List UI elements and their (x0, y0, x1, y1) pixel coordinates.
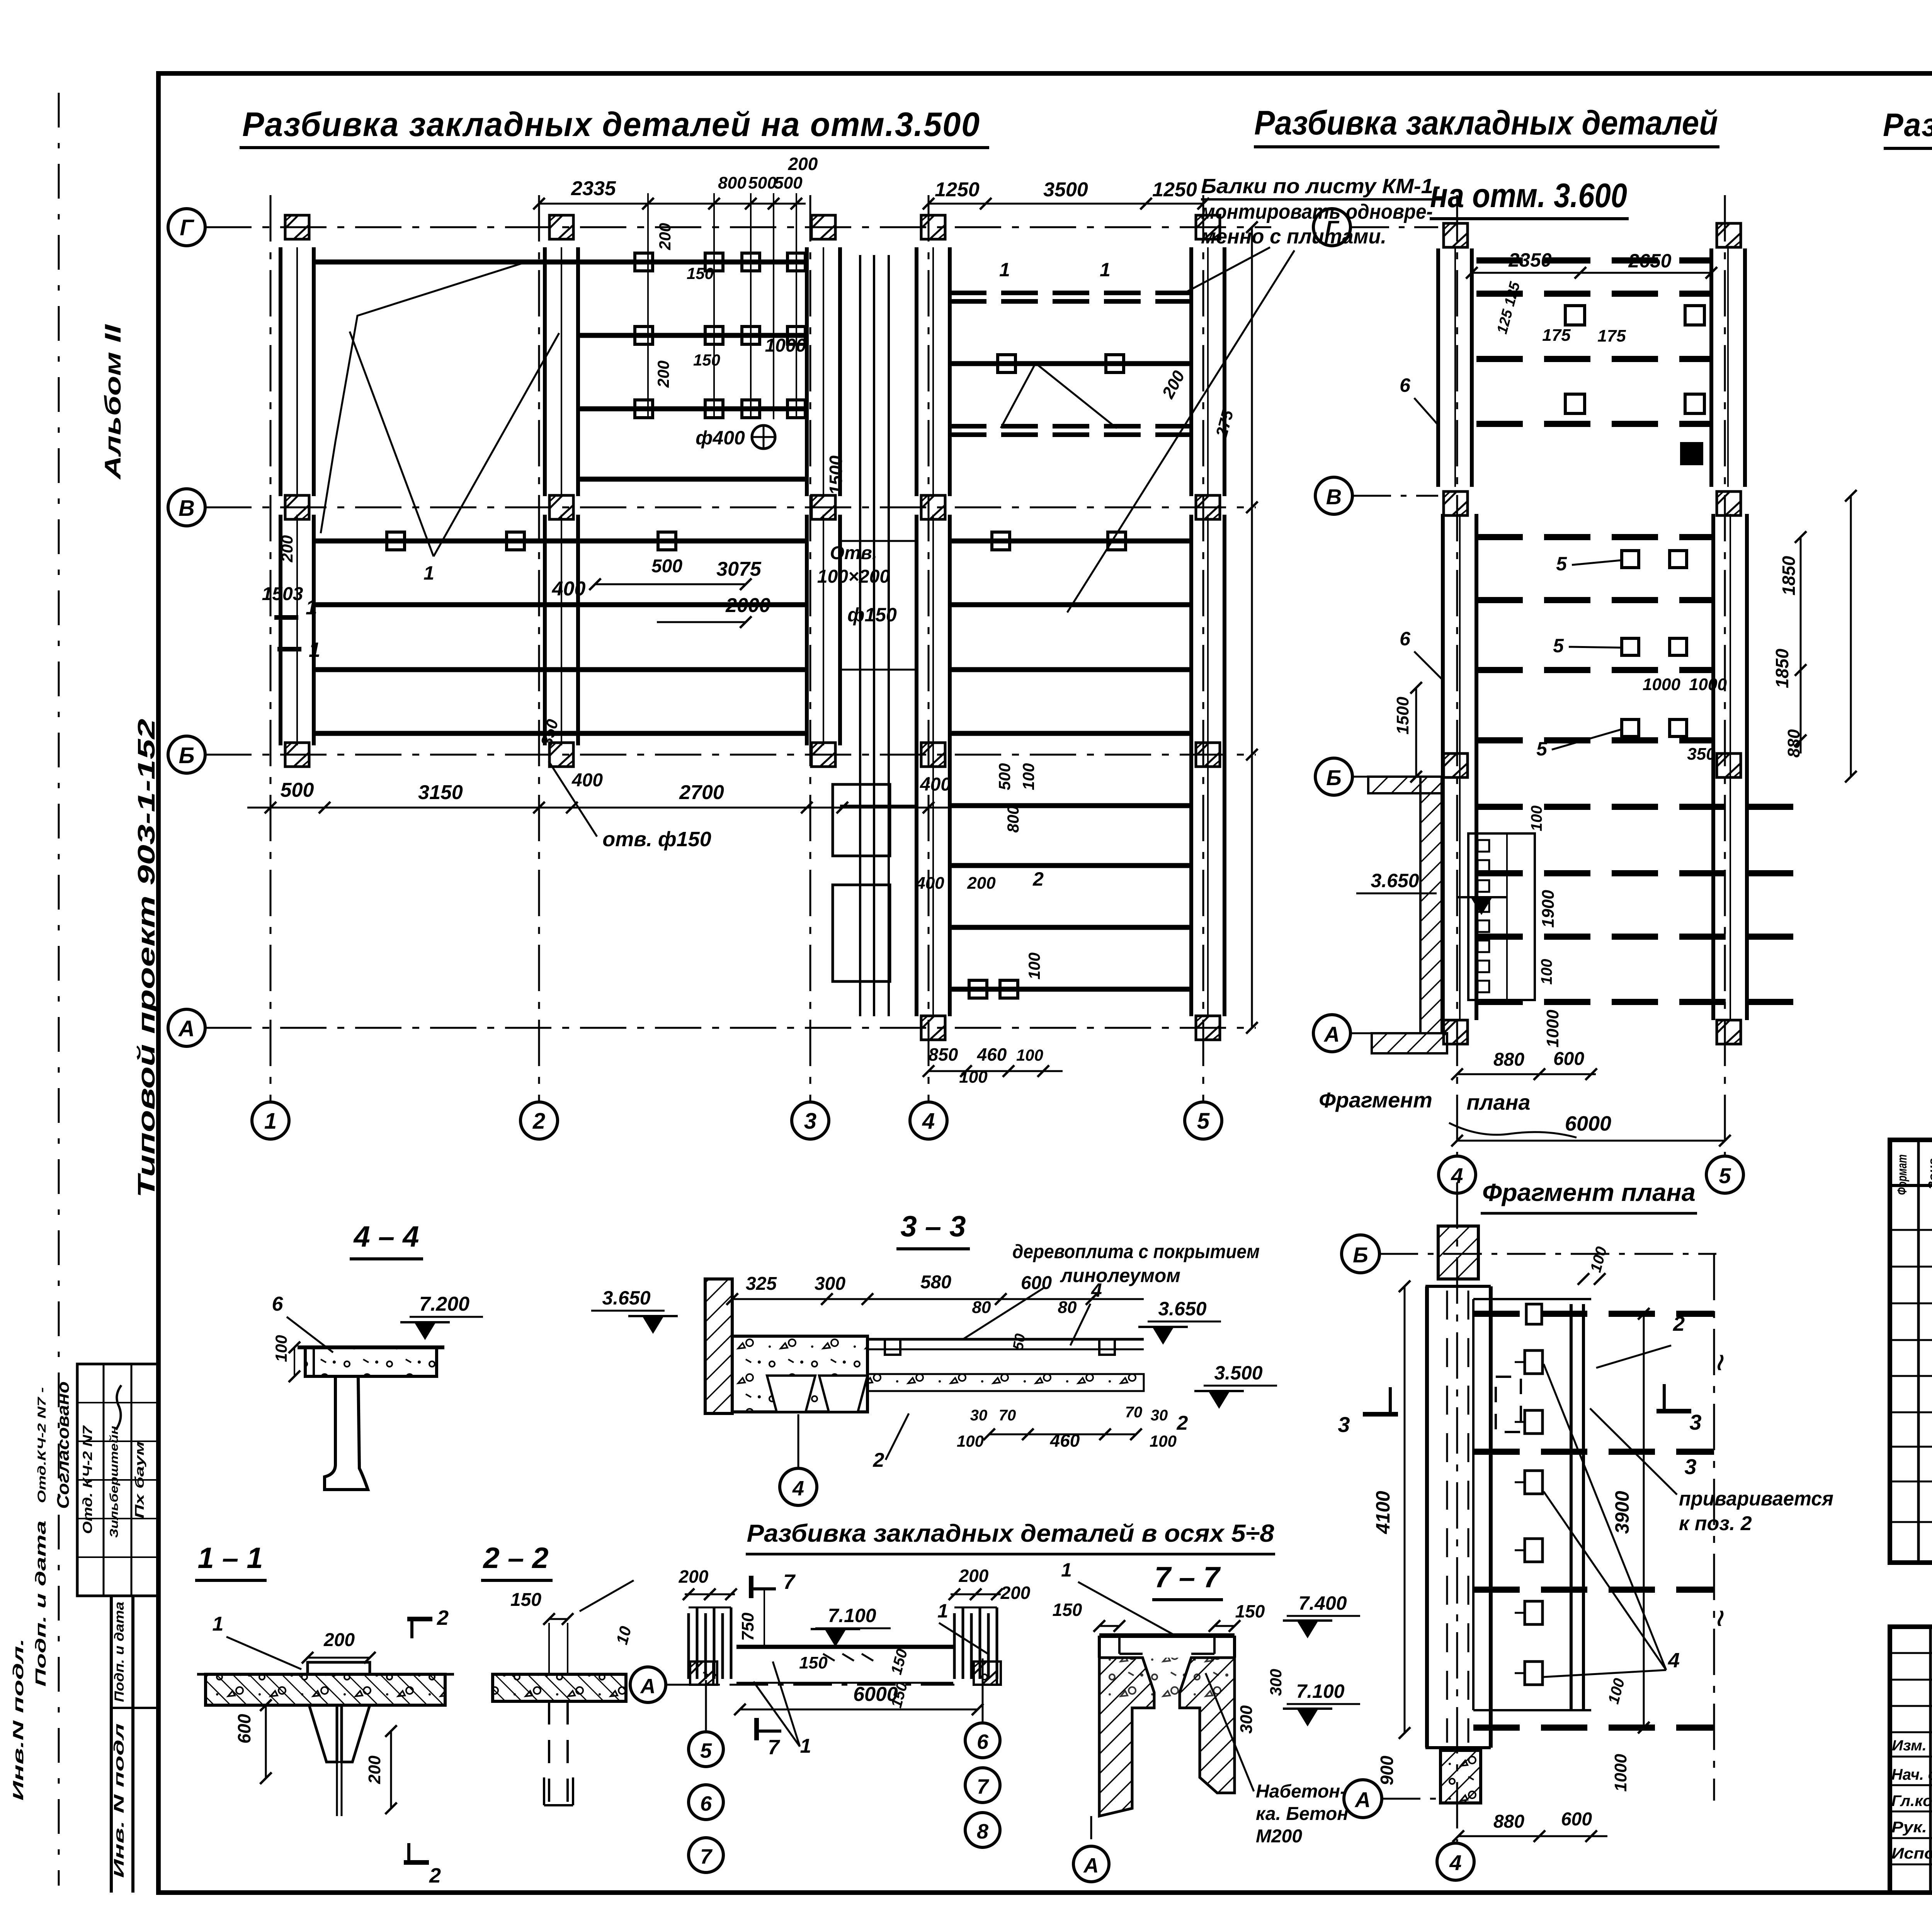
svg-text:1250: 1250 (1152, 179, 1197, 201)
svg-text:175: 175 (1597, 327, 1626, 345)
left plan: column axis 5 row y557 (1196, 215, 1220, 239)
svg-text:А: А (178, 1016, 195, 1041)
parts table column lines (1917, 1140, 1920, 1563)
svg-text:500: 500 (651, 556, 682, 577)
left plan: leader fork bay4-5 (1001, 363, 1117, 428)
svg-text:Гл.конст: Гл.конст (1891, 1793, 1932, 1810)
svg-text:3 – 3: 3 – 3 (900, 1210, 966, 1243)
svg-text:300: 300 (815, 1274, 845, 1294)
section 2-2 dashed pipe (548, 1701, 550, 1805)
left plan: wall on axis 2 (543, 247, 547, 496)
svg-text:3.650: 3.650 (1371, 870, 1419, 891)
svg-text:300: 300 (1237, 1705, 1256, 1734)
svg-text:3150: 3150 (418, 781, 463, 804)
middle plan: axis circles (1313, 209, 1350, 246)
left plan: axis 3 circle (792, 1102, 829, 1139)
svg-text:150: 150 (799, 1653, 828, 1672)
svg-text:350: 350 (1687, 745, 1716, 764)
svg-text:2: 2 (1673, 1312, 1685, 1335)
section 7-7 top slab (1099, 1633, 1235, 1638)
svg-text:80: 80 (972, 1298, 991, 1317)
svg-text:2335: 2335 (571, 177, 616, 200)
middle plan: embedded square pairs lower (1622, 551, 1639, 568)
svg-text:Нач. отд.: Нач. отд. (1891, 1766, 1932, 1783)
parts table outer frame (1890, 1140, 1932, 1563)
fragment: axis 4 vertical (1456, 1182, 1458, 1842)
svg-text:30: 30 (970, 1407, 988, 1424)
left plan: column axis 5 row y1282 (1196, 495, 1220, 519)
svg-text:Зона: Зона (1926, 1158, 1932, 1190)
title block outer frame (1890, 1627, 1932, 1893)
svg-text:4: 4 (1449, 1850, 1461, 1875)
svg-text:4100: 4100 (1372, 1491, 1394, 1534)
svg-text:5: 5 (1536, 738, 1548, 760)
section 7-7 right leg (1180, 1658, 1235, 1793)
svg-text:приваривается: приваривается (1679, 1488, 1833, 1510)
fragment: top hatched column (1438, 1226, 1478, 1279)
left strip: inventory column (110, 1596, 113, 1893)
left plan: column axis 1 row y1922 (285, 743, 309, 767)
svg-text:Отд.КЧ-2 N7 -: Отд.КЧ-2 N7 - (36, 1387, 48, 1503)
svg-text:150: 150 (693, 351, 720, 369)
osyah: beam line (736, 1645, 953, 1649)
svg-text:5: 5 (1553, 635, 1564, 656)
section 1-1 cut marks 2 (407, 1617, 432, 1621)
fragment: inner panel (1472, 1299, 1475, 1710)
title block vertical lines left part (1929, 1627, 1932, 1893)
fragment: wall caps (1425, 1285, 1491, 1288)
svg-text:М200: М200 (1256, 1826, 1302, 1847)
svg-text:отв. ф150: отв. ф150 (602, 828, 711, 851)
svg-text:А: А (1083, 1854, 1099, 1877)
left plan: otv f400 symbol (752, 425, 775, 449)
left plan: corridor door rect upper (833, 784, 890, 856)
svg-text:7.100: 7.100 (828, 1605, 876, 1626)
svg-text:ка. Бетон: ка. Бетон (1256, 1804, 1348, 1824)
svg-text:А: А (640, 1675, 656, 1698)
svg-text:1503: 1503 (262, 584, 303, 604)
svg-text:2: 2 (532, 1109, 545, 1134)
svg-text:400: 400 (571, 770, 603, 791)
section 4-4 slab (305, 1347, 437, 1376)
left plan: column axis 4 row y1282 (921, 495, 945, 519)
svg-text:2700: 2700 (679, 781, 724, 804)
parts table header bottom line (1890, 1184, 1932, 1187)
svg-text:2 – 2: 2 – 2 (482, 1542, 548, 1575)
svg-text:ф400: ф400 (696, 427, 745, 449)
left plan: column axis 2 row y557 (549, 215, 573, 239)
svg-text:Разбивка закладных деталей: Разбивка закладных деталей (1254, 104, 1718, 142)
svg-text:1850: 1850 (1779, 556, 1799, 595)
svg-text:70: 70 (999, 1407, 1016, 1424)
svg-text:400: 400 (920, 774, 951, 795)
middle plan: axis 4 vertical (1456, 195, 1458, 1155)
svg-text:80: 80 (1058, 1298, 1077, 1317)
svg-text:В: В (1326, 485, 1342, 509)
svg-text:175: 175 (1542, 326, 1571, 345)
left plan: column axis 3 row y557 (811, 215, 835, 239)
svg-text:5: 5 (1197, 1109, 1210, 1134)
svg-text:100: 100 (1019, 763, 1037, 790)
svg-text:Типовой проект 903-1-152: Типовой проект 903-1-152 (133, 719, 160, 1198)
left plan: wedge polyline (321, 262, 527, 533)
fragment: right boundary dash line (1713, 1254, 1715, 1801)
svg-text:3: 3 (1684, 1454, 1696, 1479)
osyah: left circles 5 6 7 (705, 1680, 707, 1732)
svg-text:Инв. N подл: Инв. N подл (111, 1723, 127, 1878)
section 7-7 left leg (1099, 1658, 1154, 1816)
svg-text:1: 1 (306, 596, 317, 619)
svg-text:Б: Б (179, 743, 194, 768)
left plan: column axis 5 row y1922 (1196, 743, 1220, 767)
left plan: wall on axis 3 (805, 247, 809, 496)
fragment: section 3 marks (1363, 1412, 1398, 1417)
osyah: axis A circle (630, 1667, 666, 1702)
svg-text:плана: плана (1466, 1090, 1530, 1114)
svg-text:2: 2 (1032, 868, 1044, 890)
svg-text:2: 2 (429, 1864, 441, 1887)
svg-text:линолеумом: линолеумом (1060, 1265, 1180, 1286)
svg-text:3: 3 (1689, 1410, 1701, 1434)
section 3-3 deck lines (867, 1338, 1144, 1341)
svg-text:5: 5 (1556, 553, 1567, 575)
left plan: column axis 3 row y1282 (811, 495, 835, 519)
svg-text:750: 750 (738, 1612, 757, 1641)
svg-text:2350: 2350 (1508, 249, 1551, 271)
svg-text:7: 7 (700, 1845, 713, 1868)
fragment: bottom hatched column (1440, 1750, 1481, 1803)
left plan: axis Б line (205, 754, 1256, 756)
section 7-7 axis A circle (1090, 1816, 1092, 1845)
left plan: axis 4 line (928, 195, 930, 1102)
svg-text:1500: 1500 (1393, 697, 1412, 735)
svg-text:1000: 1000 (765, 335, 806, 356)
svg-text:580: 580 (920, 1272, 951, 1293)
svg-text:500: 500 (774, 173, 803, 192)
left plan: axis Г circle (168, 209, 205, 246)
svg-text:Б: Б (1326, 765, 1342, 790)
left plan: axis В circle (168, 489, 205, 526)
left plan: beams bay 1-3 (314, 260, 807, 265)
left plan: embedded squares bay4-5 (998, 355, 1015, 372)
svg-text:3900: 3900 (1611, 1491, 1633, 1534)
svg-text:1: 1 (264, 1109, 277, 1134)
svg-text:3: 3 (804, 1109, 816, 1134)
fragment: wall verticals (1425, 1286, 1429, 1748)
svg-text:3.650: 3.650 (1158, 1298, 1206, 1320)
svg-text:200: 200 (365, 1755, 384, 1784)
svg-text:100: 100 (1528, 806, 1545, 832)
section 3-3 wall (705, 1279, 732, 1413)
svg-text:менно с плитами.: менно с плитами. (1201, 225, 1386, 248)
svg-text:Разбивка закладных деталей на: Разбивка закладных деталей на отм.3.500 (242, 105, 980, 143)
svg-text:Отд. КЧ-2 N7: Отд. КЧ-2 N7 (80, 1425, 95, 1534)
svg-text:500: 500 (281, 779, 314, 801)
middle plan: embedded squares upper (1565, 306, 1585, 325)
section 2-2 slab (493, 1674, 626, 1701)
svg-text:Формат: Формат (1895, 1155, 1910, 1195)
svg-text:А: А (1323, 1022, 1340, 1046)
svg-text:≀: ≀ (1714, 1349, 1724, 1375)
svg-text:880: 880 (1784, 729, 1803, 758)
svg-text:2000: 2000 (725, 594, 770, 617)
svg-text:100: 100 (1025, 952, 1043, 980)
svg-text:6: 6 (700, 1792, 712, 1815)
left plan: axis А line (205, 1027, 1256, 1029)
svg-text:500: 500 (748, 173, 777, 192)
svg-text:6: 6 (1400, 628, 1411, 650)
svg-text:Разбивка закладных деталей на: Разбивка закладных деталей на отм. 7.200 (1883, 107, 1932, 143)
svg-text:30: 30 (1151, 1407, 1168, 1424)
svg-text:200: 200 (788, 154, 818, 174)
svg-text:800: 800 (718, 173, 747, 192)
svg-text:Г: Г (180, 215, 194, 240)
svg-text:7.100: 7.100 (1296, 1680, 1344, 1702)
svg-text:1: 1 (999, 259, 1010, 281)
svg-text:6: 6 (272, 1293, 284, 1315)
svg-text:460: 460 (977, 1044, 1007, 1065)
left plan: column axis 4 row y557 (921, 215, 945, 239)
left plan: axis 1 circle (252, 1102, 289, 1139)
svg-text:50: 50 (1010, 1332, 1029, 1351)
left margin dash-dot line (58, 93, 60, 1886)
svg-text:Альбом II: Альбом II (100, 323, 126, 480)
svg-text:1: 1 (800, 1735, 811, 1757)
svg-text:150: 150 (1235, 1601, 1265, 1621)
left plan: axis 5 circle (1185, 1102, 1222, 1139)
left plan: axis 1 line (270, 195, 272, 1102)
svg-text:850: 850 (929, 1044, 958, 1065)
middle plan: bottom circles 4 5 (1439, 1156, 1476, 1193)
svg-text:400: 400 (915, 874, 944, 893)
svg-text:6000: 6000 (1565, 1112, 1611, 1135)
svg-text:4: 4 (1668, 1649, 1680, 1672)
section 1-1 joint trapezoid (309, 1705, 370, 1762)
svg-text:2: 2 (437, 1606, 449, 1629)
left plan: right edge vertical dim line (1251, 227, 1253, 1028)
section 3-3 slab (732, 1336, 867, 1412)
svg-text:800: 800 (1004, 806, 1022, 833)
left plan: column axis 1 row y557 (285, 215, 309, 239)
svg-text:2: 2 (1177, 1412, 1188, 1434)
svg-text:100: 100 (1016, 1046, 1043, 1064)
svg-text:1000: 1000 (1689, 675, 1727, 694)
svg-text:325: 325 (746, 1274, 777, 1294)
svg-text:100: 100 (272, 1335, 290, 1362)
svg-text:600: 600 (234, 1714, 254, 1743)
fragment: axis А circle (1344, 1780, 1382, 1818)
svg-text:1: 1 (1061, 1559, 1072, 1581)
svg-text:1000: 1000 (1611, 1754, 1630, 1792)
left plan: column axis 4 row y1922 (921, 743, 945, 767)
left plan: column axis 4 row y2629 (921, 1016, 945, 1040)
svg-text:1: 1 (423, 562, 434, 584)
osyah: right post cluster (953, 1613, 956, 1679)
svg-text:Фрагмент плана: Фрагмент плана (1482, 1179, 1696, 1206)
svg-text:на отм. 3.600: на отм. 3.600 (1430, 176, 1627, 214)
svg-text:200: 200 (967, 874, 996, 893)
section 7-7 speckle overlay (1099, 1658, 1235, 1704)
left plan: beams bay 4-5 (950, 361, 1191, 366)
svg-text:200: 200 (656, 223, 674, 250)
svg-text:7 – 7: 7 – 7 (1154, 1561, 1221, 1594)
svg-text:4: 4 (792, 1477, 804, 1500)
svg-text:880: 880 (1493, 1049, 1524, 1070)
svg-text:ф150: ф150 (847, 604, 897, 626)
svg-text:6000: 6000 (853, 1683, 898, 1706)
svg-text:2650: 2650 (1628, 250, 1671, 272)
left plan: embedded squares rows bay2-3 (635, 253, 653, 271)
svg-text:Зильберштейн: Зильберштейн (108, 1426, 121, 1538)
svg-text:1850: 1850 (1772, 648, 1792, 688)
svg-text:4: 4 (922, 1109, 935, 1134)
svg-text:к поз. 2: к поз. 2 (1679, 1512, 1752, 1535)
left plan: corridor cross ticks (840, 540, 917, 542)
left plan: column axis 3 row y1922 (811, 743, 835, 767)
middle plan: axis 5 vertical (1724, 195, 1726, 1155)
svg-text:200: 200 (959, 1566, 989, 1586)
svg-text:Исполн.: Исполн. (1891, 1845, 1932, 1862)
svg-text:150: 150 (1053, 1600, 1082, 1620)
svg-text:Подп. и дата: Подп. и дата (112, 1602, 127, 1702)
osyah: left post cluster (687, 1613, 690, 1679)
svg-text:4 – 4: 4 – 4 (353, 1220, 419, 1253)
left plan: corridor lines bay 3-4 (859, 255, 861, 1016)
svg-text:Пx баум: Пx баум (133, 1441, 146, 1519)
svg-text:1250: 1250 (935, 179, 980, 201)
svg-text:200: 200 (278, 535, 296, 563)
svg-text:Б: Б (1353, 1243, 1368, 1267)
middle plan: wall left upper (1436, 248, 1440, 487)
svg-text:1900: 1900 (1539, 890, 1558, 928)
svg-text:А: А (1354, 1787, 1371, 1812)
left plan: axis Б circle (168, 736, 205, 773)
middle plan: hatched columns (1444, 223, 1468, 247)
svg-text:4: 4 (1091, 1279, 1102, 1301)
left plan: wall on axis 5 (1189, 247, 1193, 496)
section 4-4 beam profile (325, 1376, 368, 1490)
osyah: cut marks 7 (749, 1576, 753, 1598)
section 1-1 top plate (308, 1662, 370, 1674)
left plan: KM-1 dashed beams bay 4-5 (950, 291, 1191, 295)
svg-text:600: 600 (1561, 1809, 1592, 1830)
svg-text:Рук. гр.: Рук. гр. (1891, 1819, 1932, 1836)
svg-text:3075: 3075 (716, 558, 762, 580)
svg-text:600: 600 (1021, 1273, 1052, 1293)
fragment: embedded squares column (1525, 1350, 1543, 1374)
middle plan: hatched L-wall at B (1368, 777, 1442, 793)
svg-text:1: 1 (213, 1613, 224, 1635)
svg-text:900: 900 (1377, 1755, 1397, 1785)
middle plan: hatched band at A (1372, 1033, 1447, 1053)
svg-text:400: 400 (552, 578, 586, 600)
svg-text:Подп. и дата: Подп. и дата (33, 1520, 49, 1687)
svg-text:1: 1 (1100, 259, 1111, 281)
osyah: right circles 6 7 8 (982, 1658, 984, 1723)
left plan: column axis 2 row y1282 (549, 495, 573, 519)
left strip: approval table (77, 1364, 158, 1596)
parts table row lines (1890, 1229, 1932, 1231)
svg-text:1: 1 (937, 1600, 948, 1622)
svg-text:Согласовано: Согласовано (54, 1381, 73, 1509)
middle plan: axis stub lines (1350, 226, 1438, 228)
left plan: axis 5 line (1202, 195, 1204, 1102)
svg-text:100: 100 (957, 1432, 984, 1450)
svg-text:6: 6 (977, 1730, 989, 1753)
svg-text:100: 100 (1538, 959, 1555, 985)
svg-text:200: 200 (1000, 1583, 1031, 1603)
svg-text:3.500: 3.500 (1214, 1362, 1262, 1384)
fragment: axis Б circle (1342, 1235, 1379, 1273)
left plan: axis 4 circle (910, 1102, 947, 1139)
svg-text:70: 70 (1125, 1404, 1143, 1421)
section 3-3 circle 4 (798, 1414, 799, 1468)
svg-text:500: 500 (995, 763, 1014, 790)
svg-text:7.400: 7.400 (1298, 1592, 1347, 1614)
svg-text:2: 2 (873, 1449, 884, 1471)
left plan: axis Г line (205, 226, 1271, 228)
svg-text:1 – 1: 1 – 1 (197, 1542, 263, 1575)
middle plan: wall right upper (1709, 248, 1713, 487)
left plan: column axis 5 row y2629 (1196, 1016, 1220, 1040)
left plan: axis 2 line (538, 195, 540, 1102)
left plan: axis 2 circle (520, 1102, 558, 1139)
svg-text:3: 3 (1338, 1412, 1350, 1437)
svg-text:3.650: 3.650 (602, 1287, 650, 1309)
svg-text:100×200: 100×200 (817, 566, 890, 587)
left plan: axis В line (205, 507, 1256, 509)
svg-text:7.200: 7.200 (419, 1293, 469, 1315)
svg-text:В: В (179, 496, 195, 521)
svg-text:5: 5 (700, 1739, 712, 1762)
svg-text:7: 7 (977, 1775, 990, 1798)
svg-text:3500: 3500 (1043, 179, 1088, 201)
middle plan: dashed slab rows (1476, 257, 1711, 264)
svg-text:Набетон-: Набетон- (1256, 1781, 1346, 1802)
svg-text:Инв.N подл.: Инв.N подл. (10, 1638, 27, 1801)
middle plan: wall right lower (1711, 514, 1715, 1020)
svg-text:1500: 1500 (826, 455, 846, 495)
fragment: dashed outline (1496, 1377, 1521, 1432)
middle plan: inner boiler panel (1468, 833, 1535, 1000)
svg-text:Балки по листу КМ-1-: Балки по листу КМ-1- (1201, 175, 1440, 198)
left plan: corridor door rect lower (833, 885, 890, 981)
svg-text:200: 200 (679, 1566, 709, 1587)
svg-text:монтировать одновре-: монтировать одновре- (1201, 200, 1433, 223)
svg-text:200: 200 (654, 361, 672, 388)
left plan: axis А circle (168, 1009, 205, 1046)
svg-text:≀: ≀ (1714, 1605, 1724, 1631)
middle plan: wall left lower (1441, 514, 1445, 1020)
svg-text:1000: 1000 (1643, 675, 1680, 694)
svg-text:8: 8 (977, 1820, 988, 1843)
svg-text:6: 6 (1400, 374, 1411, 396)
middle plan: filled square (1682, 444, 1702, 464)
note leader to beams (1067, 250, 1294, 612)
left plan: section cut 1 marks (274, 615, 298, 620)
svg-text:Разбивка закладных деталей в о: Разбивка закладных деталей в осях 5÷8 (747, 1519, 1274, 1547)
svg-text:Г: Г (1325, 216, 1340, 240)
svg-text:5: 5 (1719, 1163, 1731, 1188)
title block horizontal lines left part (1890, 1652, 1932, 1654)
svg-text:Фрагмент: Фрагмент (1319, 1088, 1432, 1112)
fragment: thick dashed rows (1473, 1311, 1714, 1317)
svg-text:7: 7 (783, 1570, 796, 1594)
svg-text:Изм.: Изм. (1892, 1738, 1927, 1754)
middle plan: right dim column (1800, 537, 1802, 753)
left plan: column axis 1 row y1282 (285, 495, 309, 519)
svg-text:1: 1 (309, 638, 320, 662)
